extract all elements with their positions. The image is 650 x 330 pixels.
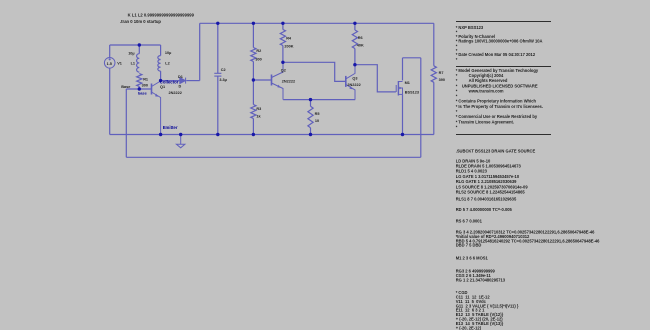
wire Q3 collector node to M1 gate (355, 65, 396, 92)
svg-text:* www.transim.com: * www.transim.com (456, 88, 504, 93)
voltage source V1 (104, 58, 115, 69)
node R4 top on bus (281, 22, 284, 25)
node Q2 base junction (252, 78, 255, 81)
resistor R3 (251, 105, 256, 119)
node Q2 collector junction (281, 61, 284, 64)
node Q1 emitter on ground bus (159, 133, 162, 136)
resistor R4 (280, 30, 285, 46)
wire R6 top lead (354, 23, 356, 30)
wire R6 bottom to Q3 collector node (354, 49, 356, 65)
wire V1 bottom lead (109, 68, 111, 135)
node ground stem on bus (179, 133, 182, 136)
svg-text:RLS1 8 7 0.00403161651029635: RLS1 8 7 0.00403161651029635 (456, 197, 517, 202)
svg-text:* Transim License Agreement.: * Transim License Agreement. (456, 119, 514, 124)
wire R4 bottom to Q2 collector node (282, 46, 284, 63)
wire drain loop top horizontal (403, 57, 421, 59)
wire M1 source lead vertical (402, 94, 404, 134)
node R2 top on bus (252, 22, 255, 25)
wire collector to D1 anode (161, 80, 180, 82)
wire R4 top lead (282, 23, 284, 29)
svg-text:* Is The Property of Transim o: * Is The Property of Transim or It's lic… (456, 104, 543, 109)
mosfet M1 (396, 81, 402, 96)
node C2 top on bus (216, 22, 219, 25)
wire R2 bottom to R3 top vertical (252, 62, 254, 105)
wire V1 top lead (109, 45, 111, 58)
wire L2 bottom lead to collector node (160, 71, 162, 81)
wire feedback bottom horizontal (126, 156, 421, 158)
resistor R7 (431, 66, 436, 83)
svg-text:M1 2 3 6 6 MOS1: M1 2 3 6 6 MOS1 (456, 256, 489, 261)
wire base horizontal (126, 88, 151, 90)
transistor Q1 emitter arrow (155, 94, 158, 97)
transistor Q3 emitter arrow (349, 86, 352, 89)
resistor R2 (251, 48, 256, 62)
node R6 top on bus (353, 22, 356, 25)
wire Q2 collector node to Q3 base (283, 62, 346, 81)
node C2 bottom on bus (216, 133, 219, 136)
transistor Q1 body (152, 81, 161, 135)
node Q3 collector junction (353, 63, 356, 66)
wire L2 top lead (160, 45, 162, 56)
resistor R5 (308, 106, 313, 127)
wire R3 bottom lead (252, 119, 254, 135)
model text separator bar 3 (456, 134, 551, 135)
node Q1 base junction (138, 87, 141, 90)
svg-text:* Ratings 100V/1.30000000e+006: * Ratings 100V/1.30000000e+006 Ohm/W 10A (456, 39, 543, 44)
wire R1 bottom to base node (138, 87, 140, 90)
node R5 bottom on bus (309, 133, 312, 136)
svg-text:RG 1 2 21.3470480295713: RG 1 2 21.3470480295713 (456, 277, 506, 282)
wire top bus horizontal (200, 22, 434, 24)
diode D1 (180, 78, 186, 84)
node M1 source on bus (401, 133, 404, 136)
svg-text:RD 5 7 4.00000000 TC=-0.005: RD 5 7 4.00000000 TC=-0.005 (456, 207, 513, 212)
model text separator bar 2 (456, 66, 551, 67)
model text separator bar 1 (456, 21, 551, 22)
svg-text:RS 6 7 0.0001: RS 6 7 0.0001 (456, 218, 483, 223)
inductor L2 (158, 56, 161, 72)
wire Q2 base horizontal (253, 79, 271, 81)
svg-text:+ (-20, 2E-12): + (-20, 2E-12) (456, 325, 482, 330)
wire D1 cathode riser vertical (199, 23, 201, 80)
wire R5 top lead (310, 100, 312, 107)
inductor L1 (137, 54, 140, 72)
wire feedback left vertical (125, 89, 127, 157)
wire feedback right vertical (420, 58, 422, 158)
resistor R6 (352, 30, 357, 49)
resistor R1 (137, 74, 142, 87)
wire emitter rail horizontal (283, 99, 355, 101)
svg-text:DBD 7 5 DBD: DBD 7 5 DBD (456, 243, 482, 248)
wire top-left node horizontal (110, 44, 161, 46)
svg-text:.SUBCKT BSS123 DRAIN GATE SOUR: .SUBCKT BSS123 DRAIN GATE SOURCE (456, 148, 536, 153)
transistor Q2 emitter arrow (277, 85, 280, 88)
wire M1 drain lead vertical (402, 58, 404, 81)
transistor Q3 body (346, 65, 355, 100)
node Q1 collector junction (159, 79, 162, 82)
ground (176, 135, 185, 148)
wire C2 top lead (217, 23, 219, 73)
node top L1 junction (138, 43, 141, 46)
wire R7 bottom lead (433, 82, 435, 134)
svg-text:* NXP BSS123: * NXP BSS123 (456, 25, 484, 30)
wire ground bus (110, 134, 434, 136)
svg-text:* Date Created Mon Mar 05 04:3: * Date Created Mon Mar 05 04:30:17 2012 (456, 52, 536, 57)
wire L1 top lead (138, 45, 140, 54)
svg-text:RLS2 SOURCE 8 1.22452544154865: RLS2 SOURCE 8 1.22452544154865 (456, 190, 526, 195)
wire D1 cathode to riser (186, 80, 199, 82)
wire C2 bottom lead (217, 76, 219, 134)
wire R2 top lead (252, 23, 254, 47)
svg-text:*: * (456, 125, 458, 130)
node R3 bottom on bus (252, 133, 255, 136)
wire R5 bottom lead (310, 128, 312, 135)
capacitor C2 (214, 73, 221, 76)
transistor Q2 body (272, 62, 284, 99)
wire R7 top lead (433, 23, 435, 66)
svg-text:*: * (456, 57, 458, 62)
node R5 top junction (309, 98, 312, 101)
